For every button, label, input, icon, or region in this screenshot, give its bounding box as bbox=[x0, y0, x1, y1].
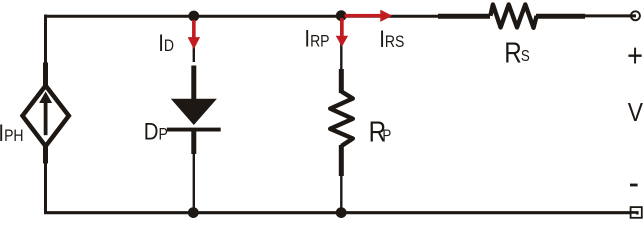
wire to + terminal bbox=[584, 14, 636, 17]
terminal circle + bbox=[631, 11, 640, 20]
current arrow IRS (red) bbox=[345, 10, 393, 22]
current arrow IRP (red) bbox=[336, 18, 348, 47]
svg-text:S: S bbox=[521, 48, 530, 65]
resistor RS zigzag bbox=[490, 5, 536, 28]
svg-text:IPH: IPH bbox=[0, 119, 24, 146]
diode DP triangle bbox=[171, 99, 217, 125]
wire Rs left lead (thick) bbox=[438, 14, 490, 19]
svg-text:P: P bbox=[382, 127, 391, 144]
svg-text:DP: DP bbox=[144, 118, 168, 145]
current source top lead (thick) bbox=[43, 63, 48, 87]
Rp top lead (thick) bbox=[339, 69, 344, 93]
wire diode branch top bbox=[193, 16, 195, 62]
diode top lead (thick) bbox=[191, 66, 196, 101]
diode bottom lead (thick) bbox=[191, 131, 196, 154]
label minus bbox=[630, 184, 638, 187]
junction node bottom Rp bbox=[336, 207, 347, 218]
svg-text:IRS: IRS bbox=[379, 25, 404, 52]
svg-text:R: R bbox=[504, 36, 521, 68]
terminal square wire hook bbox=[630, 212, 637, 214]
svg-text:IRP: IRP bbox=[304, 25, 329, 52]
wire top left horizontal bbox=[45, 15, 438, 18]
junction node top Rp bbox=[336, 10, 347, 21]
junction node top diode bbox=[188, 11, 199, 22]
Rp bottom lead (thick) bbox=[339, 145, 344, 176]
wire Rs right lead (thick) bbox=[536, 14, 585, 19]
current arrow ID (red) bbox=[188, 20, 201, 49]
wire diode branch bottom bbox=[193, 152, 195, 212]
resistor RP zigzag bbox=[330, 92, 353, 147]
wire left vertical top bbox=[44, 15, 47, 71]
wire left vertical bottom bbox=[44, 162, 47, 212]
diode DP cathode bar bbox=[167, 128, 221, 132]
terminal square - bbox=[631, 207, 642, 218]
wire Rp branch top bbox=[340, 16, 342, 71]
wire bottom horizontal bbox=[44, 211, 630, 214]
junction node bottom diode bbox=[188, 207, 199, 218]
current source bottom lead (thick) bbox=[43, 145, 48, 164]
current source arrow bbox=[44, 101, 48, 135]
wire Rp branch bottom bbox=[340, 174, 342, 212]
svg-text:+: + bbox=[627, 38, 643, 74]
svg-text:V: V bbox=[628, 98, 644, 127]
svg-text:ID: ID bbox=[158, 30, 174, 57]
current source IPH diamond bbox=[23, 86, 69, 147]
